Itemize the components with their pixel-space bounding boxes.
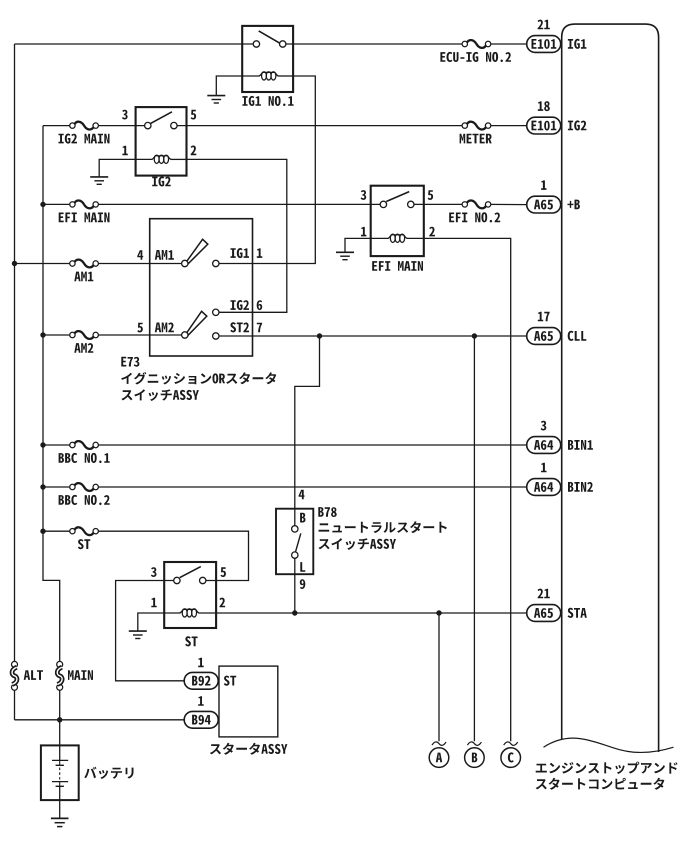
connector E101 IG1 [527, 36, 561, 53]
starter ASSY box [219, 666, 278, 737]
fuse AM1 [70, 260, 99, 268]
wire top IG1 row from left border to IG1 NO.1 relay [15, 43, 257, 45]
connector A64 BIN1 [527, 437, 561, 454]
ground battery [51, 818, 69, 826]
label E73 name line 1 [121, 372, 276, 385]
switch E73 AM2 lever [185, 311, 206, 336]
pin 1 label +B [541, 180, 546, 190]
label ST relay [185, 636, 197, 646]
label ST [78, 539, 90, 549]
wire B78 L pin 9 down to STA row [294, 574, 296, 613]
pin 3 label BIN1 [541, 421, 547, 431]
label B78 terminal L [300, 562, 305, 572]
wire relay EFI MAIN coil pin 1 to ground [345, 238, 371, 252]
relay IG2 contact blade [151, 112, 172, 124]
wire battery to ground [59, 786, 61, 818]
relay EFI MAIN box [371, 186, 424, 256]
label +B [568, 200, 580, 210]
ground IG2 relay [90, 177, 108, 184]
label AM2 [74, 343, 93, 353]
terminal B circle [465, 748, 485, 768]
wire E73 IG2 pin 6 to IG2 relay coil [187, 159, 287, 312]
wire IG1 row relay to ECU-IG NO.2 fuse [283, 43, 465, 45]
pin 2 label IG2 relay [191, 146, 197, 156]
wire ST fuse row left segment [43, 530, 72, 532]
switch E73 AM2 contact [182, 332, 188, 338]
terminal A circle [429, 748, 449, 768]
wire BBC NO.2 row left segment [43, 486, 72, 488]
wire AM2 row left segment [43, 334, 72, 336]
wire ST relay pin 3 to B92 [116, 581, 185, 681]
pin 3 label EFI MAIN relay [361, 190, 367, 200]
ground EFI MAIN relay [336, 252, 354, 259]
terminal B break mark [467, 742, 481, 745]
pin 6 label E73 [257, 300, 263, 310]
label BIN1 [568, 440, 593, 450]
switch E73 ST2 contact [213, 333, 219, 339]
wire IG2 MAIN row left segment [43, 125, 72, 127]
connector A64 BIN2 [527, 479, 561, 496]
wire IG1 row fuse to E101 connector [488, 43, 527, 45]
label E73 AM2 terminal [155, 323, 174, 333]
switch E73 AM1 lever [185, 239, 207, 264]
label starter assy [210, 743, 288, 755]
label starter ST terminal [224, 676, 236, 686]
label E73 ST2 terminal [230, 322, 249, 332]
label battery [84, 767, 133, 779]
fuse ST [70, 527, 99, 535]
label E73 IG1 terminal [231, 248, 250, 258]
pin 3 label IG2 relay [122, 110, 128, 120]
relay IG2 box [136, 107, 187, 176]
relay IG2 contact pin 3 [145, 122, 151, 128]
ECU box torn bottom edge [544, 738, 674, 752]
wire second vertical feed line [43, 126, 60, 662]
wire BBC NO.1 fuse to A64 BIN1 connector [96, 444, 527, 446]
wire AM2 fuse to E73 AM2 contact [96, 334, 185, 336]
relay ST contact pin 5 [200, 577, 206, 583]
label E73 name line 2 [121, 389, 198, 401]
wire STA branch to terminal A [438, 613, 440, 741]
pin 2 label EFI MAIN relay [429, 227, 435, 237]
label E73 designator [121, 357, 139, 367]
wire E73 ST2 pin 7 to CLL connector [216, 335, 527, 337]
fuse IG2 MAIN [70, 122, 99, 130]
relay IG1 NO.1 contact left [253, 41, 259, 47]
relay ST contact blade [180, 567, 201, 578]
relay EFI MAIN contact pin 3 [380, 201, 386, 207]
pin 1 label B94 [198, 696, 204, 706]
fuse ECU-IG NO.2 [462, 40, 491, 48]
pin 9 label B78 [300, 579, 306, 589]
node AM2 feed junction [40, 332, 45, 337]
switch B78 contact B [292, 526, 298, 532]
fusible link ALT [12, 661, 18, 690]
label E73 IG2 terminal [231, 300, 250, 310]
pin 5 label E73 [137, 323, 143, 333]
label ECU-IG NO.2 [440, 52, 511, 62]
relay IG1 NO.1 contact right [280, 41, 286, 47]
wire BBC NO.2 fuse to A64 BIN2 connector [96, 486, 527, 488]
node ST2-B78 junction [317, 333, 322, 338]
ground IG1 NO.1 relay [207, 96, 225, 103]
label IG2 [568, 120, 587, 130]
relay ST coil [164, 609, 216, 617]
switch E73 IG2 contact [213, 309, 219, 315]
wire relay ST coil pin 1 to ground [138, 613, 164, 631]
wire EFI MAIN relay pin 5 to EFI NO.2 fuse [411, 203, 465, 205]
pin 4 label E73 [137, 250, 143, 260]
wire CLL branch to terminal B [473, 336, 475, 741]
label AM1 [74, 272, 93, 282]
fuse EFI NO.2 [462, 201, 491, 209]
label ECU name line 1 [536, 762, 678, 774]
label CLL [568, 331, 587, 341]
wire AM1 fuse to E73 AM1 contact [96, 263, 185, 265]
wire METER fuse to E101 connector [488, 125, 527, 127]
label B78 name line 1 [319, 521, 447, 533]
label BBC NO.1 [59, 453, 110, 463]
pin 1 label ST relay [151, 598, 156, 608]
relay EFI MAIN coil [371, 234, 424, 242]
node battery positive junction [57, 717, 62, 722]
wire EFI MAIN relay coil pin 2 to terminal C [424, 238, 511, 741]
terminal C break mark [504, 742, 518, 745]
node BBC NO.2 feed junction [40, 484, 45, 489]
fuse BBC NO.1 [70, 441, 99, 449]
label EFI MAIN [59, 213, 110, 223]
pin 5 label ST relay [220, 567, 226, 577]
switch E73 IG1 contact [213, 260, 219, 266]
switch B78 blade [295, 533, 301, 552]
label BIN2 [568, 482, 593, 492]
wire ST relay pin 2 STA row to A65 connector [216, 612, 527, 614]
label BBC NO.2 [59, 495, 110, 505]
fuse BBC NO.2 [70, 483, 99, 491]
relay EFI MAIN contact blade [386, 192, 409, 202]
connector A65 CLL [527, 328, 561, 345]
relay ST box [164, 562, 216, 628]
pin 1 label E73 [257, 248, 263, 258]
pin 1 label IG2 relay [122, 146, 127, 156]
label ECU name line 2 [536, 778, 665, 790]
pin 5 label EFI MAIN relay [428, 190, 434, 200]
wire B78 pin 4 entry [294, 509, 296, 526]
connector A65 STA [527, 605, 561, 622]
label STA [568, 608, 587, 618]
node STA terminal-A junction [436, 610, 441, 615]
pin 7 label E73 [257, 323, 262, 333]
pin 21 label IG1 [538, 20, 550, 30]
connector E101 IG2 [527, 117, 561, 134]
switch E73 box [150, 219, 253, 356]
label EFI MAIN relay [372, 261, 423, 271]
wire EFI MAIN fuse to EFI MAIN relay pin 3 [96, 203, 384, 205]
label IG1 NO.1 [242, 96, 293, 106]
relay ST contact pin 3 [174, 577, 180, 583]
wire EFI MAIN row left segment [43, 203, 72, 205]
wire ST fuse to ST relay pin 5 [96, 531, 249, 580]
pin 1 label B92 [198, 658, 204, 668]
wire EFI NO.2 fuse to A65 +B connector [488, 203, 527, 205]
relay IG1 NO.1 contact blade [259, 31, 280, 43]
label IG2 MAIN [59, 134, 110, 144]
wire AM1 row left segment [15, 263, 73, 265]
pin 21 label STA [538, 589, 550, 599]
pin 5 label IG2 relay [191, 110, 197, 120]
label EFI NO.2 [449, 212, 500, 222]
label B78 terminal B [300, 513, 305, 523]
label ALT [24, 670, 43, 680]
pin 18 label IG2 [538, 101, 550, 111]
node EFI MAIN feed junction [40, 202, 45, 207]
connector B92 [184, 672, 218, 689]
switch B78 contact L [292, 552, 298, 558]
ground ST relay [129, 631, 147, 638]
wire MAIN link to battery [59, 690, 61, 760]
node BBC NO.1 feed junction [40, 442, 45, 447]
label B78 name line 2 [319, 538, 397, 550]
fuse METER [462, 122, 491, 130]
pin 1 label EFI MAIN relay [361, 227, 366, 237]
pin 2 label ST relay [219, 598, 225, 608]
wire relay IG1 NO.1 coil pin 1 to ground [216, 76, 242, 95]
label B78 designator [318, 507, 336, 517]
relay EFI MAIN contact pin 5 [408, 201, 414, 207]
relay IG2 contact pin 5 [171, 122, 177, 128]
node CLL terminal-B junction [472, 333, 477, 338]
pin 3 label ST relay [151, 567, 157, 577]
node B78-STA junction [292, 610, 297, 615]
wire E73 IG1 pin 1 output [216, 76, 315, 264]
label E73 AM1 terminal [155, 250, 174, 260]
battery box [41, 745, 79, 800]
fuse AM2 [70, 331, 99, 339]
connector A65 +B [527, 196, 561, 213]
switch B78 box [276, 509, 313, 575]
wire relay IG2 coil pin 1 to ground [99, 159, 135, 176]
switch E73 AM1 contact [182, 260, 188, 266]
wire ST2 branch down to B78 [295, 336, 320, 509]
node AM1 feed junction [12, 261, 17, 266]
fuse EFI MAIN [70, 201, 99, 209]
wire ALT link lower segment [14, 690, 16, 720]
connector B94 [184, 711, 218, 728]
fusible link MAIN [57, 661, 63, 690]
relay IG1 NO.1 box [242, 26, 293, 92]
ECU engine stop and start computer box [562, 24, 659, 752]
wire IG2 relay pin 5 to METER fuse [174, 125, 465, 127]
terminal A break mark [432, 742, 446, 745]
relay IG2 coil [136, 155, 187, 163]
wire IG2 MAIN fuse to IG2 relay pin 3 [96, 125, 148, 127]
label MAIN [68, 670, 93, 680]
label METER [460, 134, 492, 144]
battery cells [52, 760, 68, 786]
pin 1 label BIN2 [541, 463, 546, 473]
wire left border vertical [14, 44, 16, 661]
label IG1 [568, 39, 587, 49]
terminal C circle [501, 748, 521, 768]
pin 17 label CLL [538, 312, 550, 322]
label IG2 relay [152, 176, 171, 186]
relay IG1 NO.1 coil [242, 72, 293, 80]
node ST feed junction [40, 529, 45, 534]
wire BBC NO.1 row left segment [43, 444, 72, 446]
wire B78 contact L to pin 9 [294, 558, 296, 574]
wire battery positive row [15, 719, 185, 721]
pin 4 label B78 [299, 490, 305, 500]
